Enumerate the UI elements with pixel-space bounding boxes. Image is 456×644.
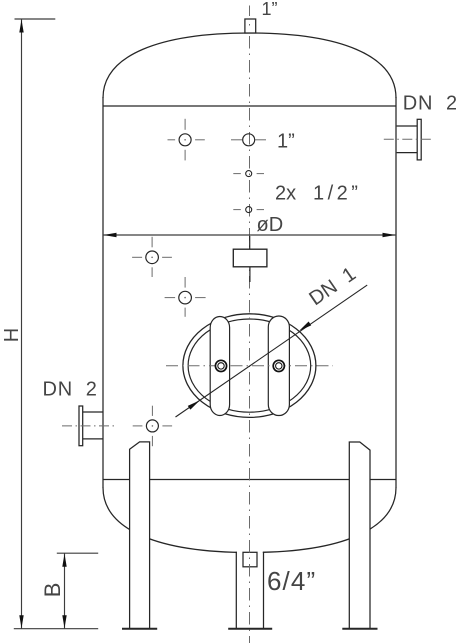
dimension øD line xyxy=(103,234,396,236)
manhole left bolt xyxy=(215,360,226,371)
node F1 ticks xyxy=(168,139,176,141)
DN1 leader line xyxy=(176,285,368,417)
dimension H arrows xyxy=(19,20,23,33)
svg-text:øD: øD xyxy=(257,214,284,236)
lifting lug plate xyxy=(233,249,267,267)
manhole inner rim xyxy=(188,319,311,412)
node F3 ticks xyxy=(233,173,241,175)
bottom weld seam line xyxy=(103,479,396,481)
dimension H line xyxy=(14,19,98,629)
svg-text:6/4”: 6/4” xyxy=(267,566,316,596)
manhole horizontal centreline xyxy=(166,365,333,367)
dimension øD arrows xyxy=(104,233,117,237)
manhole left yoke bar xyxy=(210,317,229,416)
left support leg xyxy=(130,442,150,629)
node F4 ticks xyxy=(233,209,241,211)
drain socket 6/4" xyxy=(243,552,257,567)
manhole right bolt xyxy=(273,360,284,371)
main vertical centreline xyxy=(249,6,251,17)
svg-text:B: B xyxy=(40,583,65,598)
fitting F4 circle 1/2" xyxy=(246,207,252,213)
fitting cross ticks (grey) xyxy=(132,119,266,446)
centre drain pipe support xyxy=(237,550,263,629)
node F5 ticks xyxy=(132,256,142,258)
left nozzle flange DN2 plate xyxy=(79,406,83,446)
right nozzle flange DN2 plate xyxy=(417,119,421,160)
svg-text:H: H xyxy=(1,328,23,342)
node F6 ticks xyxy=(165,297,176,299)
fitting F2 circle 1" xyxy=(243,134,255,146)
svg-text:DN 2: DN 2 xyxy=(403,92,456,114)
vessel shell right wall xyxy=(395,97,397,488)
bottom head (dome) xyxy=(103,488,396,553)
left nozzle flange DN2 neck xyxy=(83,412,103,439)
fitting F1 circle xyxy=(179,134,191,146)
svg-text:1/2”: 1/2” xyxy=(313,183,361,205)
DN1 arrow lower xyxy=(188,400,200,409)
fitting centre dots xyxy=(151,139,186,427)
dimension B line xyxy=(57,553,98,628)
right support leg xyxy=(349,442,370,629)
DN1 arrow upper xyxy=(299,322,311,331)
svg-text:2x: 2x xyxy=(275,183,296,205)
manhole outer rim xyxy=(183,314,316,418)
top nozzle 1" xyxy=(245,19,256,33)
node F2 ticks xyxy=(231,139,242,141)
dimension B arrows xyxy=(62,554,66,567)
vessel shell left wall xyxy=(102,97,104,488)
svg-text:1”: 1” xyxy=(277,130,295,152)
svg-text:1”: 1” xyxy=(262,0,278,19)
right nozzle flange DN2 neck xyxy=(397,126,418,153)
svg-text:DN 2: DN 2 xyxy=(43,378,98,400)
node F7 ticks xyxy=(133,425,143,427)
fitting F3 circle 1/2" xyxy=(246,171,252,177)
fitting F6 circle xyxy=(179,291,192,304)
top weld seam line xyxy=(103,105,396,107)
fitting F5 circle xyxy=(146,251,159,264)
left flange centreline xyxy=(62,425,117,427)
manhole right yoke bar xyxy=(268,316,289,416)
right flange centreline xyxy=(384,138,434,140)
top head (dome) xyxy=(103,33,396,98)
fitting F7 circle xyxy=(146,420,158,432)
foot base plates xyxy=(122,628,378,630)
